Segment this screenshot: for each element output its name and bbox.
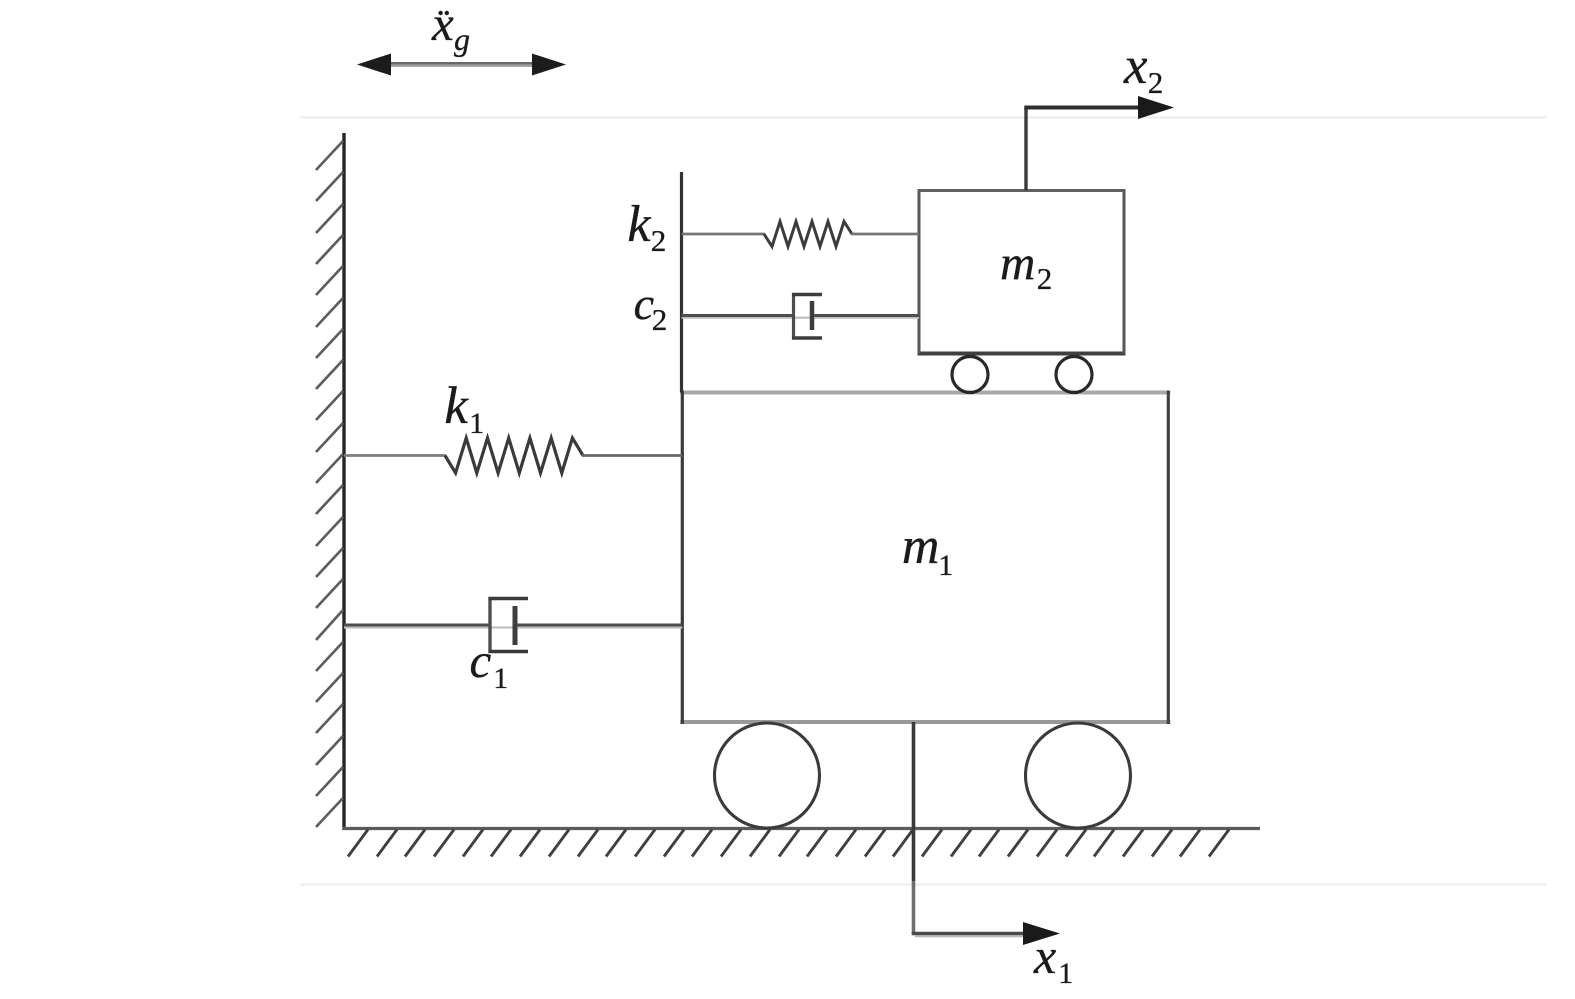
svg-text:2: 2 [651,223,667,258]
svg-text:x: x [431,0,454,51]
svg-text:2: 2 [1148,65,1164,100]
svg-text:m: m [902,518,940,575]
svg-text:x: x [1123,37,1148,95]
svg-text:1: 1 [469,407,484,440]
svg-text:c: c [470,633,492,688]
svg-text:m: m [1000,235,1035,290]
svg-text:1: 1 [493,662,508,695]
svg-text:k: k [627,196,651,253]
svg-text:1: 1 [1058,957,1073,990]
svg-text:k: k [444,377,469,435]
svg-text:x: x [1033,928,1056,984]
svg-text:g: g [454,21,470,57]
svg-text:2: 2 [652,302,668,337]
svg-text:1: 1 [938,549,953,582]
svg-text:2: 2 [1037,261,1053,296]
